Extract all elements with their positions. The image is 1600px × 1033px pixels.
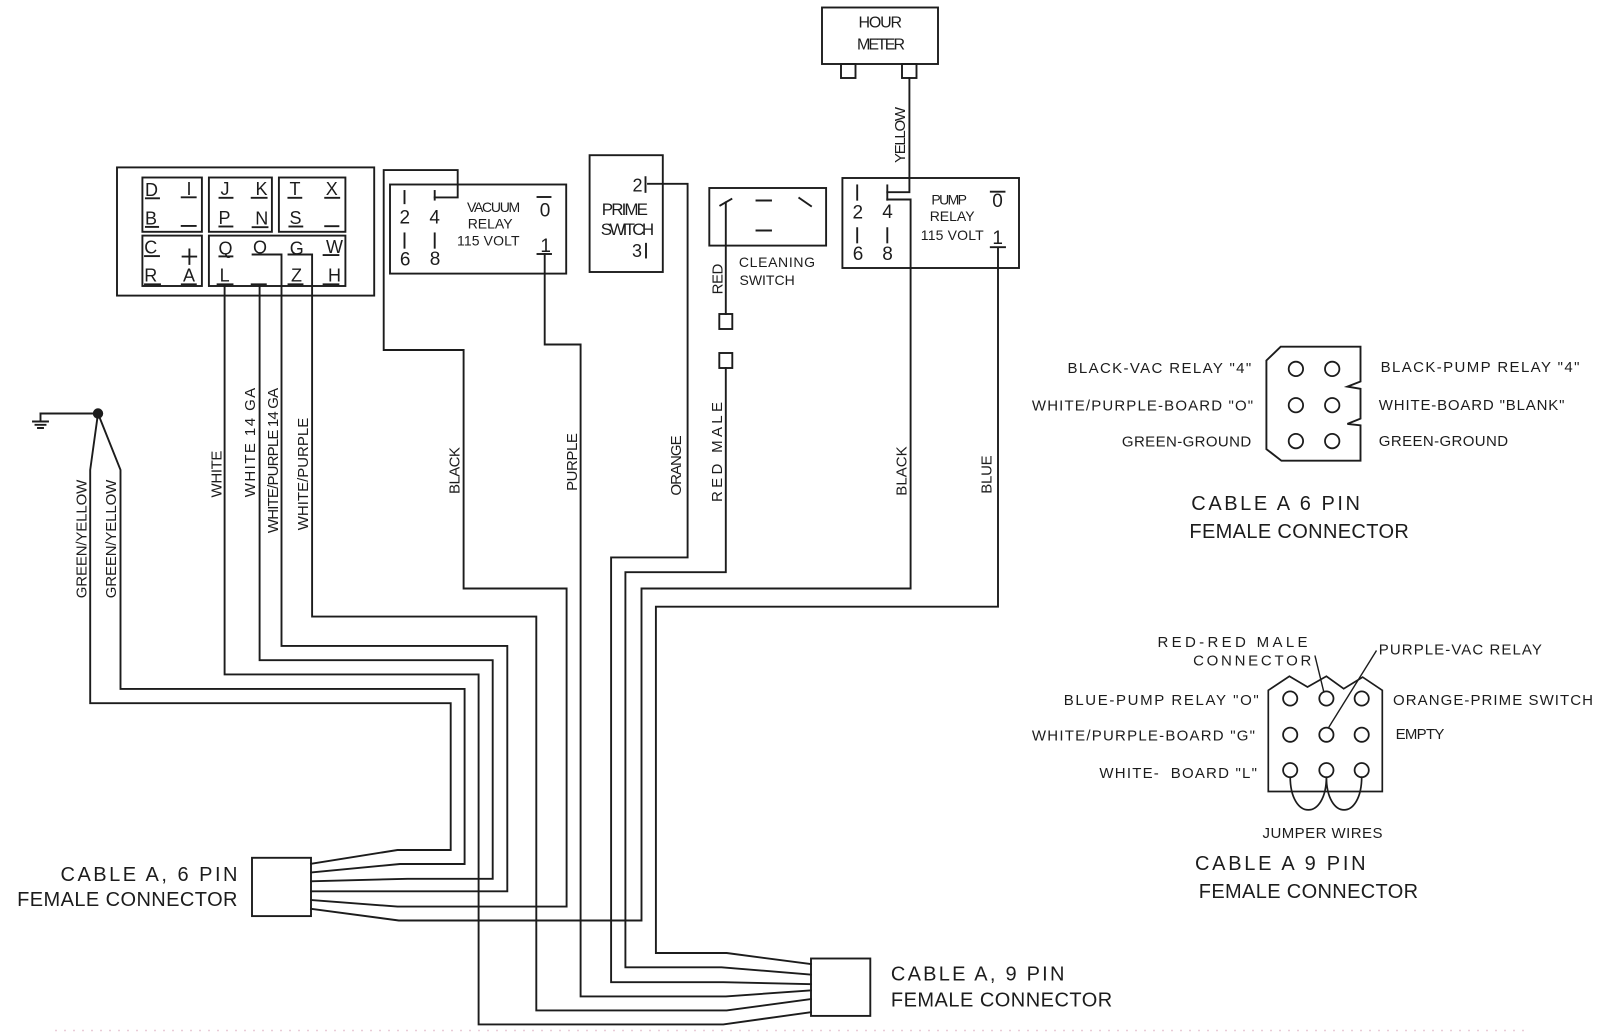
svg-text:2: 2 [400, 208, 411, 229]
svg-text:C: C [144, 238, 157, 258]
svg-text:RED MALE: RED MALE [709, 402, 726, 502]
cleaning switch lever [720, 199, 731, 206]
svg-text:I: I [186, 179, 191, 199]
svg-text:ORANGE: ORANGE [668, 435, 685, 495]
terminal underline N [253, 226, 268, 228]
svg-text:T: T [290, 179, 301, 199]
svg-text:D: D [145, 180, 158, 200]
svg-text:SWITCH: SWITCH [740, 272, 795, 288]
vacuum relay box U1 [390, 185, 566, 274]
terminal underline W [324, 254, 339, 256]
cleaning switch contact dash lower [757, 230, 772, 232]
svg-text:B: B [145, 209, 157, 229]
svg-text:Z: Z [291, 265, 302, 285]
terminal underline Q [219, 255, 232, 257]
9 pin connector pin hole r3c1 [1283, 763, 1297, 777]
svg-text:EMPTY: EMPTY [1396, 726, 1445, 743]
vacuum relay pin 4 bar [434, 191, 436, 200]
jumper wire arc 2 [1326, 777, 1361, 810]
svg-text:J: J [221, 179, 230, 199]
svg-text:RELAY: RELAY [468, 215, 514, 231]
pump relay pin 1 underbar [991, 246, 1005, 248]
svg-text:GREEN/YELLOW: GREEN/YELLOW [103, 479, 120, 598]
9 pin connector pin hole r1c1 [1283, 691, 1297, 705]
svg-text:PUMP: PUMP [931, 191, 967, 207]
svg-text:CABLE A, 6 PIN: CABLE A, 6 PIN [61, 864, 238, 886]
ground wire to junction [41, 413, 94, 415]
svg-text:GREEN-GROUND: GREEN-GROUND [1379, 433, 1508, 450]
svg-text:GREEN-GROUND: GREEN-GROUND [1122, 433, 1251, 450]
6 pin female connector outline (right diagram) [1266, 347, 1360, 461]
board section box D I B [142, 178, 202, 232]
svg-text:115 VOLT: 115 VOLT [457, 233, 520, 249]
prime switch pin 3 tick [645, 244, 647, 258]
terminal underline blank next to L [252, 283, 266, 285]
pump relay pin 6 bar [856, 228, 858, 242]
cleaning switch contact dash upper [757, 200, 772, 202]
cleaning switch box S2 [709, 188, 826, 246]
wire blue from pump relay pin 1 to 9-pin connector [656, 248, 998, 965]
board section box Q O G W L Z H [209, 236, 346, 286]
svg-text:2: 2 [632, 175, 642, 195]
wire black from pump relay pin 4 to 6-pin connector [311, 200, 911, 921]
prime switch box S1 [590, 155, 663, 272]
board section box J K P N [209, 178, 272, 232]
svg-text:BLACK-VAC RELAY "4": BLACK-VAC RELAY "4" [1068, 360, 1252, 377]
svg-text:WHITE 14 GA: WHITE 14 GA [242, 388, 259, 497]
wire red from cleaning switch [725, 202, 727, 314]
svg-text:HOUR: HOUR [859, 15, 903, 32]
wire yellow from hour meter to pump relay pin 4 [887, 78, 909, 192]
pump relay pin 2 bar [856, 185, 858, 199]
svg-text:BLUE: BLUE [979, 455, 996, 493]
svg-text:PURPLE: PURPLE [564, 433, 581, 491]
inline connector square upper [719, 314, 732, 329]
cable A 9 pin female connector box (bottom middle) [811, 959, 870, 1016]
svg-text:L: L [220, 265, 230, 285]
board section box C + R A [142, 236, 202, 286]
svg-text:YELLOW: YELLOW [892, 106, 909, 163]
terminal underline X [325, 197, 339, 199]
svg-text:O: O [253, 238, 267, 258]
svg-text:N: N [255, 209, 268, 229]
wire white/purple from board G to 9-pin connector [289, 255, 812, 1011]
terminal underline blank box3 [325, 225, 338, 227]
wire white/purple 14 ga from board O to 6-pin connector [253, 255, 508, 892]
svg-text:SWITCH: SWITCH [601, 220, 654, 239]
hour meter terminal tab left [841, 64, 856, 78]
svg-text:RED: RED [710, 263, 727, 294]
svg-text:ORANGE-PRIME SWITCH: ORANGE-PRIME SWITCH [1393, 692, 1593, 709]
svg-text:BLACK: BLACK [894, 446, 911, 495]
pump relay pin 8 bar [886, 228, 888, 242]
svg-text:X: X [326, 179, 338, 199]
leader line purple-vac relay [1329, 651, 1377, 728]
svg-text:WHITE-BOARD "BLANK": WHITE-BOARD "BLANK" [1379, 397, 1565, 414]
svg-text:4: 4 [882, 202, 893, 223]
svg-text:G: G [290, 239, 304, 259]
svg-text:6: 6 [853, 244, 864, 265]
pump relay box U2 [842, 178, 1019, 268]
wire white 14 ga from board blank to 6-pin connector [260, 286, 493, 881]
6 pin connector pin hole r1c1 [1289, 362, 1303, 376]
vacuum relay pin 1 underbar [538, 253, 552, 255]
svg-text:FEMALE CONNECTOR: FEMALE CONNECTOR [1189, 521, 1408, 543]
scan artifact dotted line [55, 1030, 1530, 1032]
svg-text:0: 0 [540, 201, 551, 222]
cable A 6 pin female connector box (bottom left) [252, 858, 311, 916]
svg-text:METER: METER [857, 36, 905, 53]
pump relay pin 0 overbar [991, 191, 1005, 193]
terminal underline B [146, 226, 158, 228]
vacuum relay pin 6 bar [404, 233, 406, 247]
junction dot ground node [93, 408, 103, 418]
terminal underline R [145, 283, 160, 285]
board section box T X S [279, 178, 346, 232]
svg-text:P: P [218, 208, 230, 228]
terminal underline S [289, 226, 302, 228]
jumper wire arc 1 [1290, 777, 1326, 810]
inline connector square lower [719, 353, 732, 368]
hour meter box [822, 8, 938, 65]
pump relay pin 4 bar [886, 185, 888, 199]
terminal underline H [324, 283, 339, 285]
svg-text:K: K [255, 179, 267, 199]
plus symbol [183, 250, 197, 264]
svg-text:WHITE: WHITE [209, 451, 226, 498]
wire green/yellow 1 from ground to 6-pin connector [90, 414, 451, 864]
terminal underline J [220, 197, 233, 199]
vacuum relay pin 8 bar [434, 233, 436, 247]
svg-text:CONNECTOR: CONNECTOR [1193, 653, 1311, 670]
terminal underline K [252, 197, 267, 199]
svg-text:GREEN/YELLOW: GREEN/YELLOW [74, 479, 91, 598]
wire red male to 9-pin connector [625, 368, 811, 975]
svg-text:PRIME: PRIME [602, 200, 648, 219]
terminal underline Z [289, 283, 303, 285]
cleaning switch contact diagonal right [799, 198, 811, 206]
9 pin connector pin hole r1c2 [1319, 691, 1333, 705]
svg-text:1: 1 [540, 236, 551, 257]
svg-text:H: H [328, 265, 341, 285]
svg-text:2: 2 [853, 203, 864, 224]
terminal underline I [182, 196, 196, 198]
terminal board outer box [117, 167, 374, 295]
svg-text:WHITE/PURPLE-BOARD "O": WHITE/PURPLE-BOARD "O" [1032, 398, 1253, 415]
svg-text:Q: Q [218, 239, 232, 259]
prime switch pin 2 tick [645, 177, 647, 192]
svg-text:FEMALE CONNECTOR: FEMALE CONNECTOR [1199, 881, 1418, 903]
svg-text:RELAY: RELAY [930, 208, 976, 224]
wire purple from vacuum relay pin 1 to 9-pin connector [545, 254, 811, 996]
svg-text:8: 8 [882, 244, 893, 265]
6 pin connector pin hole r2c1 [1289, 398, 1303, 412]
svg-text:W: W [326, 237, 343, 257]
svg-text:JUMPER WIRES: JUMPER WIRES [1263, 825, 1383, 842]
9 pin female connector outline (right diagram) [1268, 676, 1382, 791]
svg-text:CLEANING: CLEANING [739, 254, 815, 270]
terminal underline D [146, 197, 159, 199]
wire black from vacuum relay pin 4 to 6-pin connector [311, 170, 567, 907]
svg-text:A: A [183, 265, 195, 285]
terminal underline P [219, 226, 232, 228]
svg-text:CABLE A, 9 PIN: CABLE A, 9 PIN [891, 964, 1065, 986]
6 pin connector pin hole r2c2 [1325, 398, 1339, 412]
wire white from board L to 9-pin connector [225, 286, 811, 1024]
svg-text:WHITE/PURPLE 14 GA: WHITE/PURPLE 14 GA [265, 388, 282, 533]
svg-text:4: 4 [429, 207, 440, 228]
terminal underline blank box1 [182, 225, 196, 227]
svg-text:R: R [144, 265, 157, 285]
wire green/yellow 2 from ground to 6-pin connector [98, 414, 465, 873]
9 pin connector pin hole r3c3 [1355, 763, 1369, 777]
9 pin connector pin hole r2c3 [1355, 728, 1369, 742]
6 pin connector pin hole r1c2 [1325, 362, 1339, 376]
svg-text:1: 1 [992, 228, 1003, 249]
vacuum relay pin 2 bar [404, 191, 406, 203]
vacuum relay pin 0 overbar [538, 196, 551, 198]
9 pin connector pin hole r2c2 [1319, 728, 1333, 742]
svg-text:0: 0 [992, 191, 1003, 212]
svg-text:WHITE/PURPLE: WHITE/PURPLE [295, 418, 312, 531]
svg-text:FEMALE CONNECTOR: FEMALE CONNECTOR [17, 889, 237, 911]
terminal underline C [145, 255, 159, 257]
svg-text:S: S [289, 208, 301, 228]
svg-text:WHITE/PURPLE-BOARD "G": WHITE/PURPLE-BOARD "G" [1032, 728, 1255, 745]
svg-text:6: 6 [400, 250, 411, 271]
svg-text:WHITE- BOARD "L": WHITE- BOARD "L" [1099, 765, 1257, 782]
svg-text:3: 3 [632, 241, 642, 261]
9 pin connector pin hole r1c3 [1355, 691, 1369, 705]
svg-text:FEMALE CONNECTOR: FEMALE CONNECTOR [891, 990, 1112, 1012]
terminal underline A [182, 283, 196, 285]
9 pin connector pin hole r2c1 [1283, 728, 1297, 742]
ground symbol [33, 414, 48, 429]
svg-text:BLACK: BLACK [447, 447, 464, 494]
terminal underline T [288, 197, 301, 199]
6 pin connector pin hole r3c1 [1289, 434, 1303, 448]
svg-text:BLUE-PUMP RELAY "O": BLUE-PUMP RELAY "O" [1064, 692, 1259, 709]
svg-text:VACUUM: VACUUM [467, 199, 520, 215]
terminal underline L [218, 283, 233, 285]
svg-text:115 VOLT: 115 VOLT [921, 227, 984, 243]
9 pin connector pin hole r3c2 [1319, 763, 1333, 777]
svg-text:PURPLE-VAC RELAY: PURPLE-VAC RELAY [1379, 641, 1542, 658]
6 pin connector pin hole r3c2 [1325, 434, 1339, 448]
wire orange from prime switch pin 2 to 9-pin connector [611, 184, 811, 984]
svg-text:BLACK-PUMP RELAY "4": BLACK-PUMP RELAY "4" [1381, 359, 1580, 376]
svg-text:8: 8 [430, 249, 441, 270]
hour meter terminal tab right [902, 64, 917, 78]
leader line red-red male connector [1315, 656, 1324, 693]
